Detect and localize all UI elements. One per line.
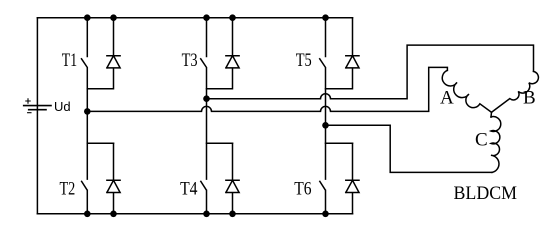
svg-text:Ud: Ud	[54, 99, 71, 114]
node phase B	[203, 95, 210, 102]
svg-text:A: A	[440, 88, 454, 109]
wire bottom DC bus	[37, 213, 352, 215]
transistor T3 switch	[201, 18, 207, 99]
node bottom bus leg1 switch	[84, 211, 91, 218]
wire phase A with hops	[87, 67, 447, 111]
diode D1	[87, 18, 120, 89]
battery Ud plate negative	[29, 109, 46, 111]
node top bus leg1 diode	[110, 14, 117, 21]
svg-text:BLDCM: BLDCM	[454, 183, 518, 204]
motor winding A	[442, 70, 491, 112]
wire T4 jog	[207, 142, 233, 144]
diode D5	[326, 18, 360, 89]
battery Ud plate positive	[24, 105, 51, 107]
node bottom bus leg1 diode	[110, 211, 117, 218]
wire phase C	[326, 125, 493, 172]
svg-text:T5: T5	[296, 50, 312, 71]
svg-text:T4: T4	[180, 179, 198, 200]
diode D4	[226, 143, 239, 214]
node top bus leg1 switch	[84, 14, 91, 21]
transistor T6 switch	[320, 125, 326, 214]
motor winding B	[492, 71, 539, 112]
node top bus leg2 switch	[203, 14, 210, 21]
diode D2	[107, 143, 120, 214]
node top bus leg2 diode	[229, 14, 236, 21]
wire left rail upper	[36, 18, 38, 214]
svg-text:T3: T3	[182, 50, 198, 71]
transistor T5 switch	[320, 18, 326, 126]
motor Y-center stem	[490, 112, 493, 117]
svg-text:C: C	[475, 130, 488, 151]
svg-text:T2: T2	[60, 179, 76, 200]
svg-text:T6: T6	[294, 179, 311, 200]
node phase A	[84, 108, 91, 115]
transistor T1 switch	[82, 18, 88, 112]
node bottom bus leg3 switch	[322, 211, 329, 218]
svg-text:B: B	[523, 88, 536, 109]
node bottom bus leg2 diode	[229, 211, 236, 218]
wire phase B with hop	[207, 45, 534, 99]
node top bus leg3 switch	[322, 14, 329, 21]
wire T6 jog	[326, 142, 353, 144]
diode D3	[207, 18, 240, 89]
diode D6	[346, 143, 359, 214]
transistor T4 switch	[201, 99, 207, 214]
node phase C	[322, 122, 329, 129]
wire T2 jog	[87, 142, 113, 144]
motor winding C	[491, 117, 501, 173]
transistor T2 switch	[82, 111, 88, 213]
battery minus sign	[28, 112, 31, 114]
node bottom bus leg2 switch	[203, 211, 210, 218]
wire top DC bus	[37, 17, 352, 19]
battery plus sign	[26, 99, 30, 103]
svg-text:T1: T1	[62, 50, 77, 71]
